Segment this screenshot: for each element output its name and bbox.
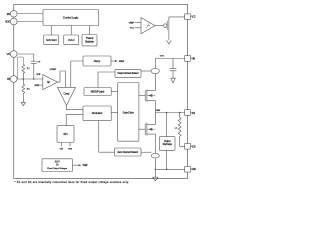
svg-text:Comp: Comp: [64, 91, 70, 95]
svg-text:CF: CF: [38, 62, 42, 64]
svg-text:VCC: VCC: [130, 28, 135, 30]
svg-text:VO: VO: [7, 52, 11, 56]
svg-text:Gate Drive: Gate Drive: [123, 110, 135, 114]
svg-text:VOS: VOS: [191, 145, 196, 148]
svg-text:Discharge: Discharge: [163, 143, 173, 146]
svg-text:UVLO: UVLO: [68, 38, 75, 42]
svg-text:VRAMP: VRAMP: [119, 60, 125, 63]
svg-text:Thermal: Thermal: [86, 36, 94, 40]
svg-text:FB: FB: [7, 77, 10, 81]
svg-text:Control Logic: Control Logic: [63, 16, 79, 20]
svg-text:Ramp: Ramp: [94, 59, 101, 63]
svg-text:VSW: VSW: [156, 110, 161, 112]
svg-text:SW: SW: [191, 112, 195, 115]
svg-text:VCC: VCC: [191, 16, 195, 19]
svg-text:R1: R1: [27, 68, 31, 70]
svg-text:VDD: VDD: [5, 20, 10, 24]
svg-text:EA: EA: [47, 80, 50, 84]
svg-text:VFB: VFB: [36, 74, 41, 76]
svg-text:VIN: VIN: [160, 56, 164, 58]
svg-text:Or: Or: [56, 164, 59, 167]
svg-text:VIN: VIN: [191, 58, 195, 61]
svg-text:* R1 and R2 are internally con: * R1 and R2 are internally connected lin…: [15, 180, 130, 184]
svg-text:Zero Current Detect: Zero Current Detect: [117, 151, 138, 154]
svg-text:VREF: VREF: [34, 85, 40, 87]
svg-text:VIN: VIN: [60, 148, 64, 150]
svg-text:VREF: VREF: [83, 165, 89, 167]
svg-text:VCOMP: VCOMP: [50, 69, 57, 71]
svg-text:Soft-Start: Soft-Start: [46, 38, 57, 42]
svg-text:HiCCUP Latch: HiCCUP Latch: [91, 91, 105, 94]
svg-text:Shutdown: Shutdown: [85, 40, 95, 44]
svg-text:EN: EN: [7, 12, 10, 16]
svg-text:R2: R2: [27, 89, 31, 91]
svg-text:VOS: VOS: [68, 148, 73, 150]
svg-text:GND: GND: [191, 168, 196, 171]
svg-text:Peak Current Select: Peak Current Select: [118, 72, 139, 75]
svg-text:tON: tON: [64, 132, 68, 136]
svg-text:VREF: VREF: [129, 22, 135, 24]
svg-text:Fixed Output Voltages: Fixed Output Voltages: [47, 167, 67, 170]
svg-text:Modulator: Modulator: [92, 111, 103, 115]
svg-text:L1: L1: [175, 128, 178, 130]
